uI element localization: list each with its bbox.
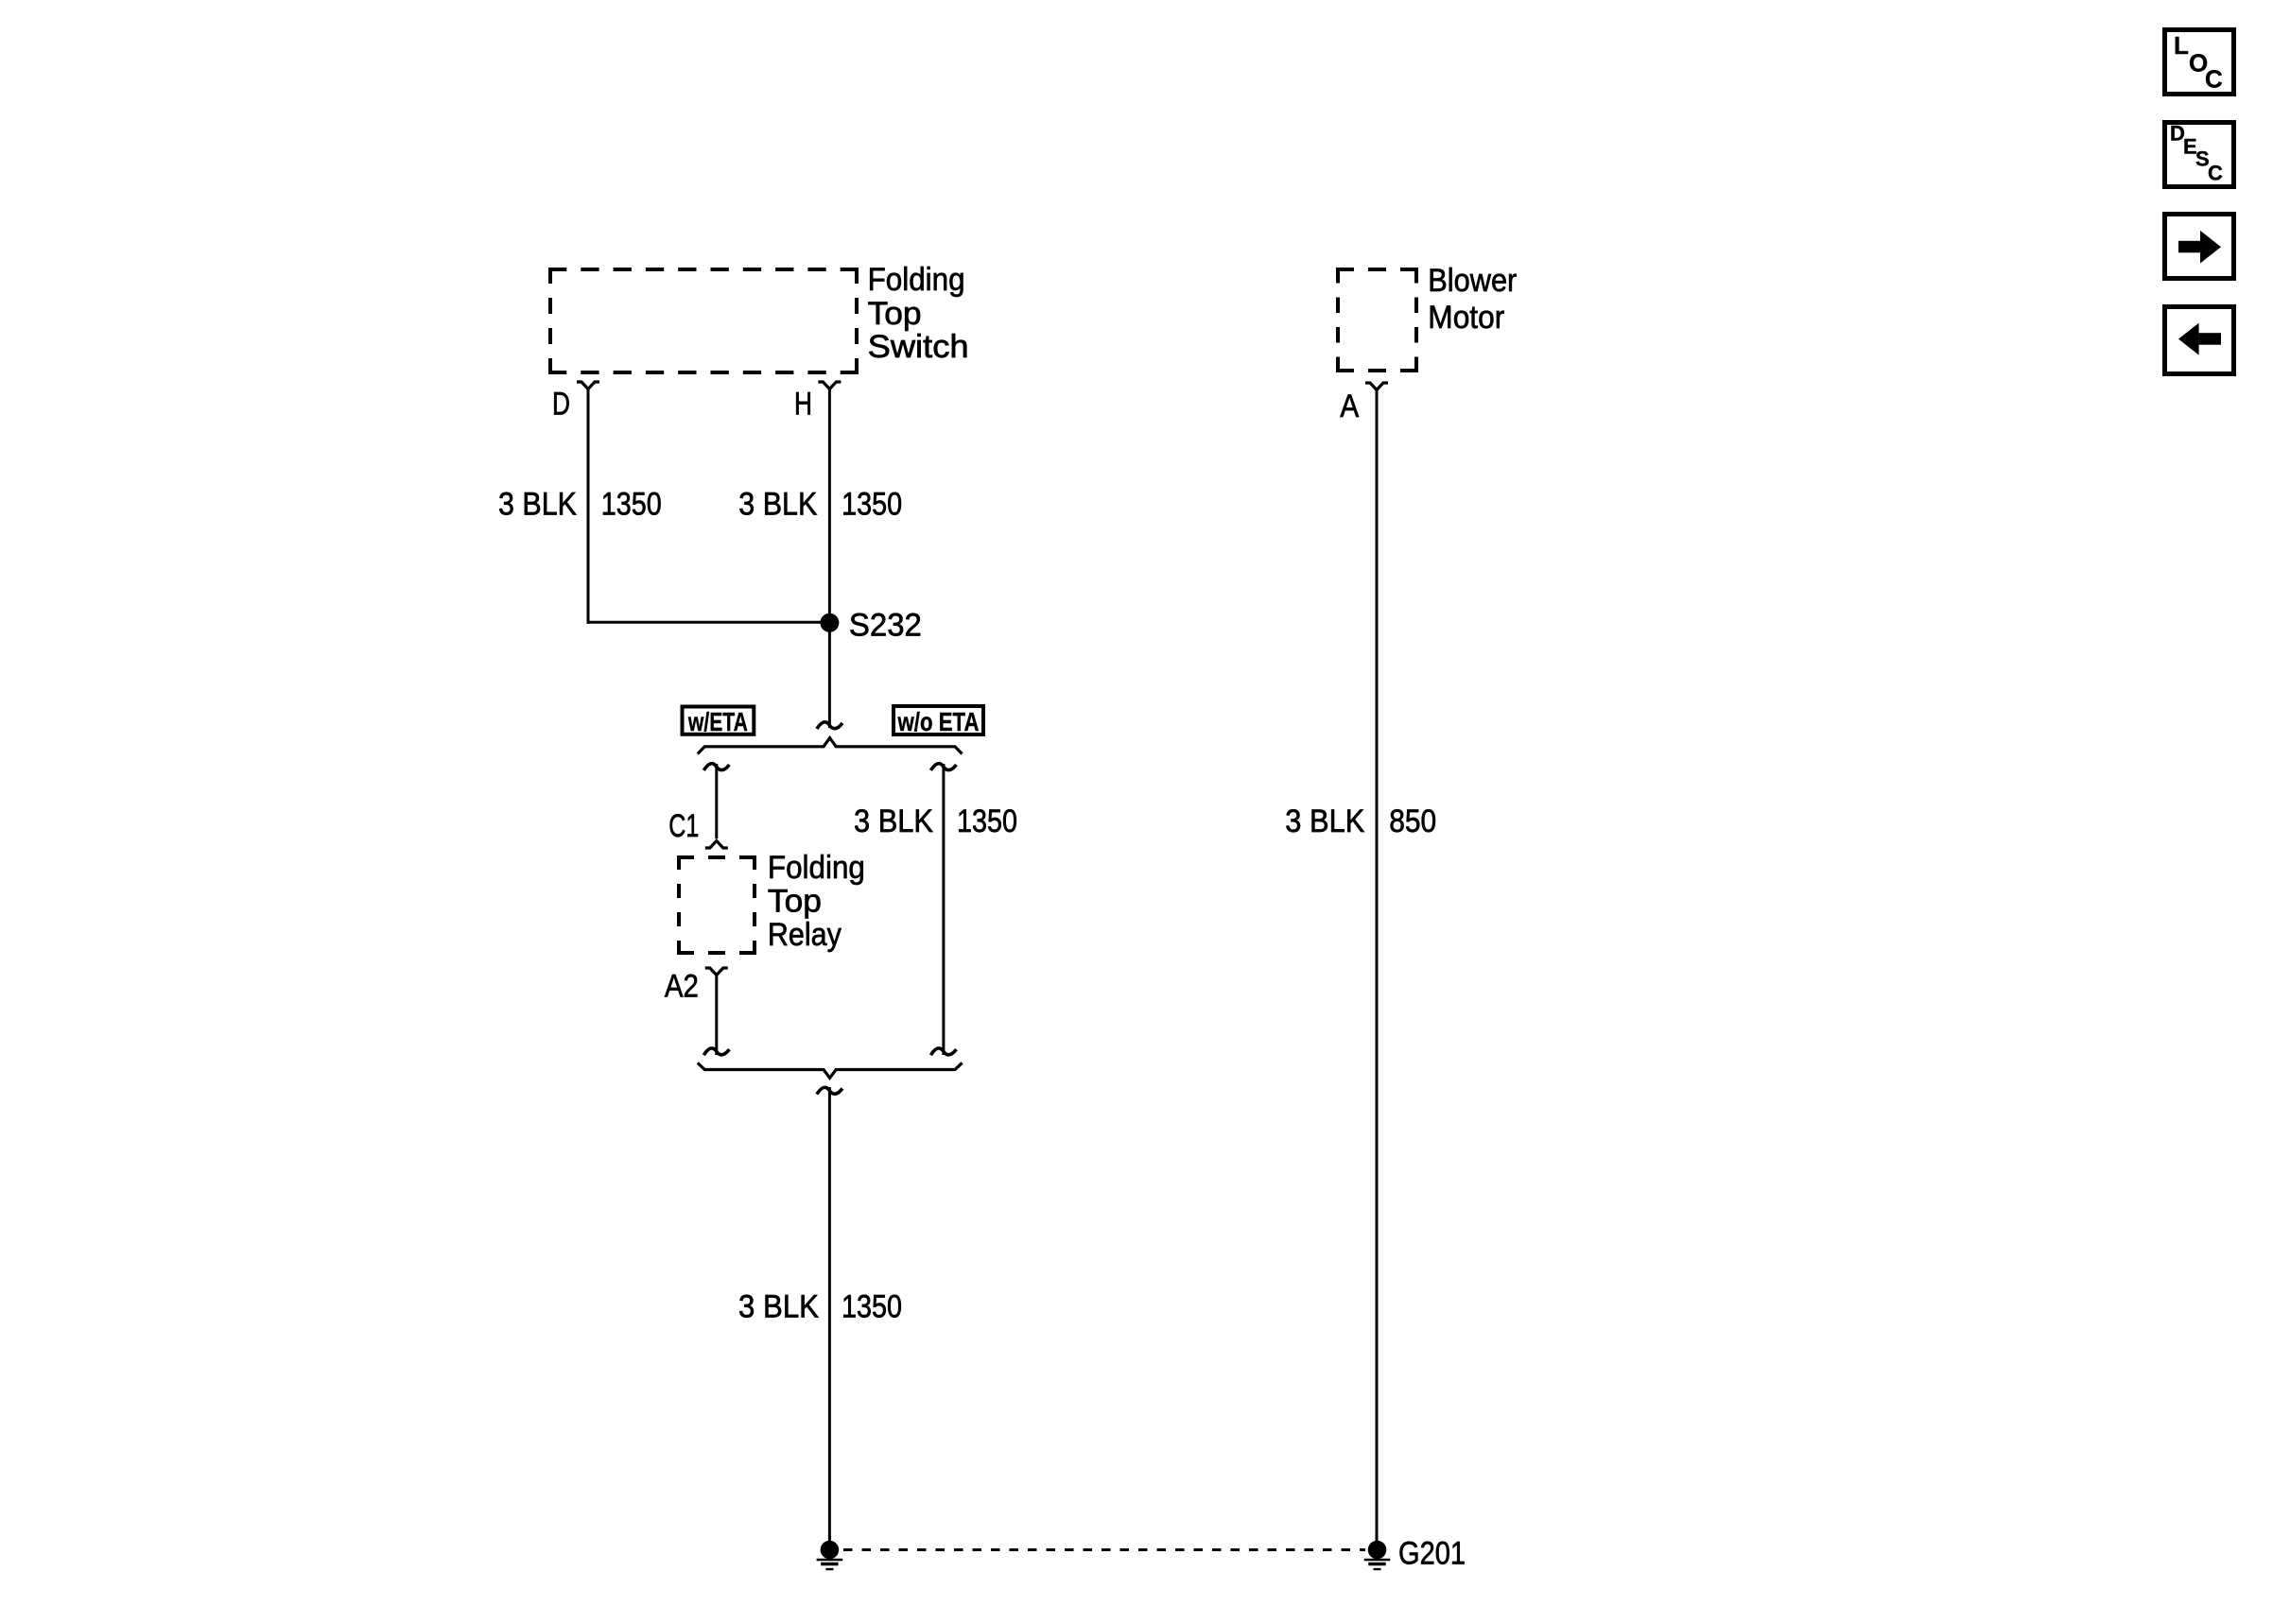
wire label: 3 BLK 850 — [1285, 803, 1436, 839]
wire: Blower Motor pin A down to ground G201, 3 BLK 850 — [1376, 389, 1379, 1542]
svg-text:w/ETA: w/ETA — [687, 707, 748, 736]
svg-text:1350: 1350 — [842, 1288, 902, 1324]
svg-text:G201: G201 — [1398, 1536, 1466, 1572]
svg-text:C1: C1 — [668, 808, 699, 844]
svg-text:Folding: Folding — [868, 262, 965, 298]
wire break symbol (tilde) below merge brace — [817, 1087, 842, 1094]
wire label: 3 BLK 1350 (D branch) — [498, 487, 662, 523]
svg-text:3 BLK: 3 BLK — [854, 803, 933, 839]
wire: w/o ETA branch bottom tilde — [930, 1048, 956, 1055]
wire: merge brace down to ground, 3 BLK 1350 — [828, 1087, 831, 1542]
svg-text:Motor: Motor — [1428, 300, 1504, 336]
splice S232 (junction dot) — [820, 608, 922, 644]
wire: pin H down to splice S232, 3 BLK 1350 — [828, 389, 831, 728]
wire: w/ETA branch bottom tilde — [703, 1048, 729, 1055]
label: Blower Motor — [1428, 263, 1517, 336]
pin A2 of Folding Top Relay — [665, 968, 728, 1005]
svg-text:3 BLK: 3 BLK — [1285, 803, 1364, 839]
svg-text:Top: Top — [868, 296, 922, 332]
option tag: w/ETA — [683, 707, 755, 736]
wire: relay pin A2 down to merge brace — [715, 975, 718, 1055]
svg-text:D: D — [552, 387, 570, 423]
nav icon: DESC button — [2165, 122, 2234, 187]
svg-text:A2: A2 — [665, 969, 699, 1005]
svg-text:w/o ETA: w/o ETA — [897, 707, 980, 736]
split brace (top, options divide) — [698, 738, 963, 754]
svg-text:C: C — [2208, 162, 2223, 185]
pin C1 of Folding Top Relay — [668, 808, 728, 848]
svg-text:A: A — [1340, 389, 1359, 424]
wire label: 3 BLK 1350 (w/o ETA branch) — [854, 803, 1017, 839]
svg-text:1350: 1350 — [842, 487, 902, 523]
svg-text:3 BLK: 3 BLK — [738, 487, 817, 523]
wire label: 3 BLK 1350 (H branch) — [738, 487, 902, 523]
svg-text:Switch: Switch — [868, 329, 969, 365]
wire: w/ETA branch top tilde — [703, 764, 729, 770]
ground symbol (left, under folding top circuit) — [817, 1541, 843, 1569]
ground symbol G201 (right, under blower motor) — [1364, 1536, 1466, 1572]
pin A of Blower Motor — [1340, 383, 1388, 424]
dashed ground link wire between grounds — [843, 1548, 1365, 1551]
svg-text:Folding: Folding — [768, 850, 865, 886]
pin H of Folding Top Switch — [794, 382, 841, 423]
wire label: 3 BLK 1350 (lower) — [738, 1288, 902, 1324]
svg-text:C: C — [2205, 64, 2223, 93]
component box: Folding Top Relay (dashed) — [677, 855, 756, 955]
svg-text:L: L — [2174, 31, 2189, 60]
svg-text:3 BLK: 3 BLK — [498, 487, 577, 523]
label: Folding Top Relay — [768, 850, 865, 953]
option tag: w/o ETA — [894, 706, 983, 736]
svg-text:Blower: Blower — [1428, 263, 1517, 299]
svg-text:3 BLK: 3 BLK — [738, 1288, 819, 1324]
svg-text:S232: S232 — [849, 608, 922, 644]
label: Folding Top Switch — [868, 262, 969, 365]
svg-text:Relay: Relay — [768, 917, 842, 953]
svg-text:1350: 1350 — [601, 487, 662, 523]
nav icon: forward arrow button — [2165, 215, 2234, 279]
component box: Folding Top Switch (dashed) — [548, 268, 859, 374]
svg-text:Top: Top — [768, 883, 822, 919]
nav icon: LOC button — [2165, 30, 2234, 95]
wire: w/o ETA branch, 3 BLK 1350 — [942, 764, 945, 1055]
pin D of Folding Top Switch — [552, 382, 599, 423]
svg-text:850: 850 — [1389, 803, 1436, 839]
wire: w/ETA branch to relay pin C1 — [715, 764, 718, 838]
merge brace (bottom, options rejoin) — [698, 1063, 963, 1078]
svg-text:H: H — [794, 387, 812, 423]
wire break symbol (tilde) below S232 — [817, 722, 842, 729]
wire: pin D down to splice S232, 3 BLK 1350 — [587, 389, 830, 624]
nav icon: back arrow button — [2165, 307, 2234, 374]
component box: Blower Motor (dashed) — [1336, 268, 1418, 372]
wire: w/o ETA branch top tilde — [930, 764, 956, 770]
svg-text:1350: 1350 — [957, 803, 1017, 839]
